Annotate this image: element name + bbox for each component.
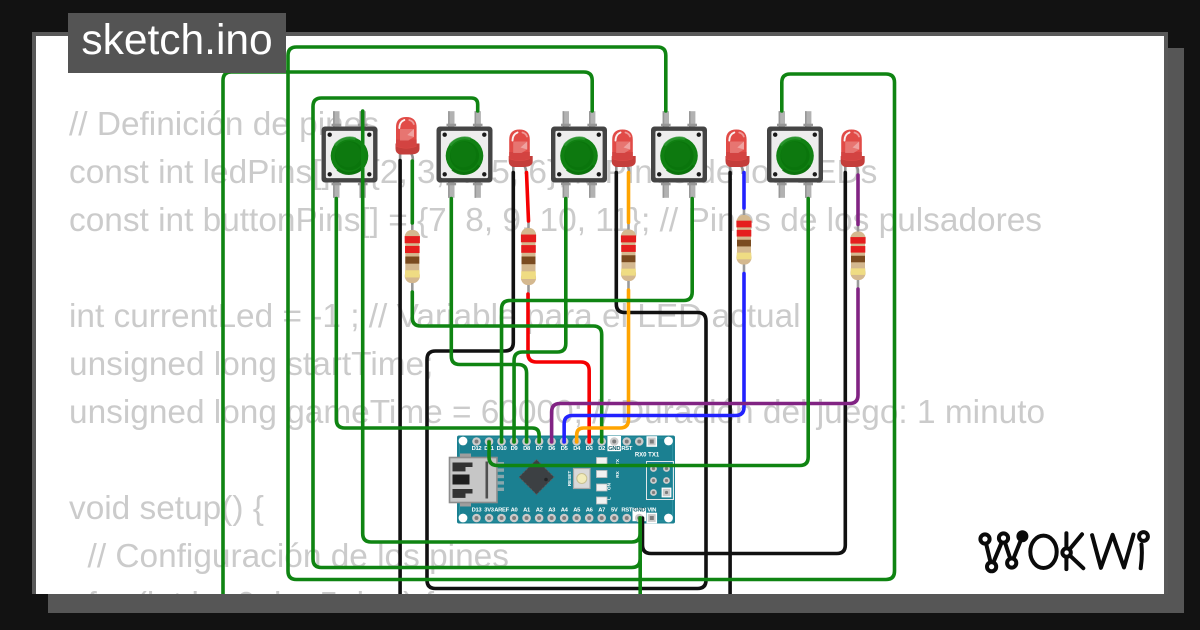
svg-text:GND: GND (608, 446, 620, 452)
wire BTN2 t-right to GND (313, 98, 640, 568)
wire R3 to D4 (577, 290, 629, 442)
pushbutton BTN2 (437, 111, 493, 198)
resistor R5 (220R) (850, 222, 865, 295)
svg-text:VIN: VIN (647, 508, 656, 514)
svg-text:D4: D4 (573, 446, 581, 452)
wire LED1 anode to R1 (410, 161, 414, 223)
resistor R2 (220R) (521, 218, 536, 299)
LED LED3 (612, 130, 636, 175)
wire BTN1 t-right to GND (363, 111, 641, 542)
resistor R4 (220R) (736, 205, 751, 279)
wire LED5 cathode to GND (643, 173, 846, 554)
svg-text:5V: 5V (611, 508, 618, 514)
svg-text:D3: D3 (586, 446, 594, 452)
WOKWI logo (980, 532, 1148, 571)
wire R4 to D5 (564, 274, 744, 443)
reset button (574, 469, 591, 489)
svg-text:D13: D13 (472, 508, 483, 514)
wire LED2-LED3 cathode link (427, 173, 706, 589)
svg-text:D10: D10 (497, 446, 507, 452)
MCU chip (519, 460, 554, 495)
svg-text:A6: A6 (586, 508, 594, 514)
svg-text:AREF: AREF (494, 508, 509, 514)
svg-text:D7: D7 (536, 446, 543, 452)
wire BTN1 b-left to D7 (336, 199, 539, 443)
svg-text:RESET: RESET (567, 471, 572, 487)
pushbutton BTN3 (551, 111, 607, 198)
svg-text:3V3: 3V3 (484, 508, 494, 514)
svg-text:GND: GND (633, 508, 645, 514)
sketch.ino tab (68, 13, 286, 73)
wire LED2 anode to R2 (527, 173, 529, 222)
svg-text:A2: A2 (536, 508, 543, 514)
svg-text:A5: A5 (573, 508, 581, 514)
svg-text:RX0 TX1: RX0 TX1 (635, 453, 660, 459)
svg-text:A0: A0 (511, 508, 518, 514)
mini-USB connector (460, 454, 471, 459)
pushbutton BTN1 (322, 111, 378, 198)
resistor R3 (220R) (621, 220, 636, 296)
wire LED3 anode to R3 (627, 173, 631, 223)
svg-text:ON: ON (607, 482, 613, 490)
svg-text:D6: D6 (548, 446, 556, 452)
svg-text:RX: RX (615, 470, 621, 477)
Arduino Nano U1 (450, 436, 676, 524)
LED LED1 (396, 117, 420, 162)
svg-text:A7: A7 (598, 508, 605, 514)
wire LED5 anode to R5 (856, 175, 860, 225)
wire GND pin down off-page (638, 518, 642, 597)
resistor R1 (220R) (405, 220, 420, 297)
wire BTN5 b-right to D11 (489, 199, 808, 466)
wire BTN4 b-right to D10 (502, 199, 693, 443)
wire LED4 anode to R4 (742, 173, 746, 209)
pushbutton BTN5 (767, 111, 823, 198)
wire BTN3 t-right off-page (223, 72, 592, 597)
wire LED4 cathode (728, 173, 732, 598)
LED LED2 (509, 130, 533, 175)
wire BTN3 b-left to D9 (514, 199, 566, 443)
svg-text:D2: D2 (598, 446, 605, 452)
pushbutton BTN4 (651, 111, 707, 198)
svg-text:A4: A4 (561, 508, 569, 514)
svg-text:RST: RST (621, 508, 632, 514)
svg-text:A1: A1 (523, 508, 531, 514)
svg-text:D8: D8 (523, 446, 531, 452)
svg-text:RST: RST (621, 446, 632, 452)
svg-text:A3: A3 (548, 508, 556, 514)
wire BTN4 t-left to BTN5 t-left (288, 47, 895, 580)
wire R1 to D2 (412, 292, 601, 442)
svg-text:D9: D9 (511, 446, 519, 452)
svg-text:L: L (607, 497, 613, 500)
wire LED1 cathode (398, 161, 402, 598)
LED LED4 (726, 130, 750, 175)
wire R5 to D6 (552, 289, 858, 442)
LED LED5 (841, 130, 865, 175)
SMD parts TX/RX/ON/L (597, 458, 608, 465)
svg-text:D5: D5 (561, 446, 569, 452)
svg-text:D12: D12 (472, 446, 482, 452)
wire R2 to D3 (528, 294, 589, 442)
wire BTN2 b-left to D8 (451, 199, 526, 443)
ICSP header (647, 462, 674, 500)
